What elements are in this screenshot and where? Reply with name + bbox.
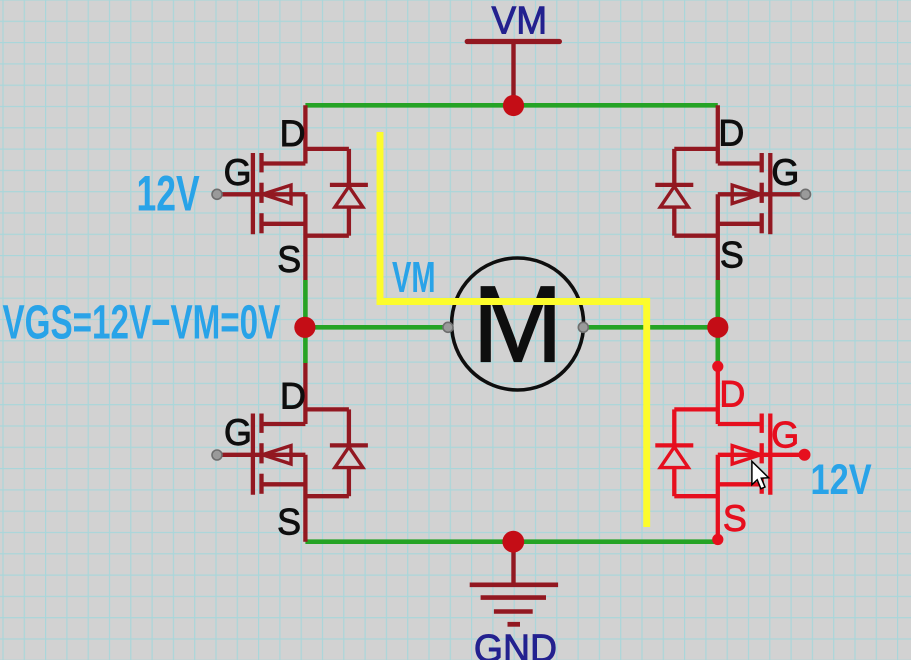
svg-text:12V: 12V [137, 167, 200, 222]
svg-text:M: M [472, 264, 563, 386]
svg-text:G: G [224, 411, 252, 453]
svg-text:S: S [277, 239, 301, 281]
svg-text:G: G [224, 151, 252, 193]
svg-text:VGS=12V−VM=0V: VGS=12V−VM=0V [3, 294, 281, 349]
svg-text:VM: VM [392, 252, 436, 302]
svg-text:G: G [771, 152, 799, 194]
svg-text:VM: VM [492, 0, 548, 43]
svg-text:G: G [771, 414, 799, 456]
svg-text:D: D [280, 375, 306, 417]
svg-text:S: S [277, 501, 301, 543]
svg-text:D: D [718, 112, 744, 154]
svg-text:D: D [280, 113, 306, 155]
svg-text:12V: 12V [811, 456, 872, 503]
svg-text:S: S [723, 498, 747, 540]
svg-text:D: D [719, 373, 745, 415]
svg-text:S: S [720, 234, 744, 276]
svg-text:GND: GND [474, 627, 557, 660]
